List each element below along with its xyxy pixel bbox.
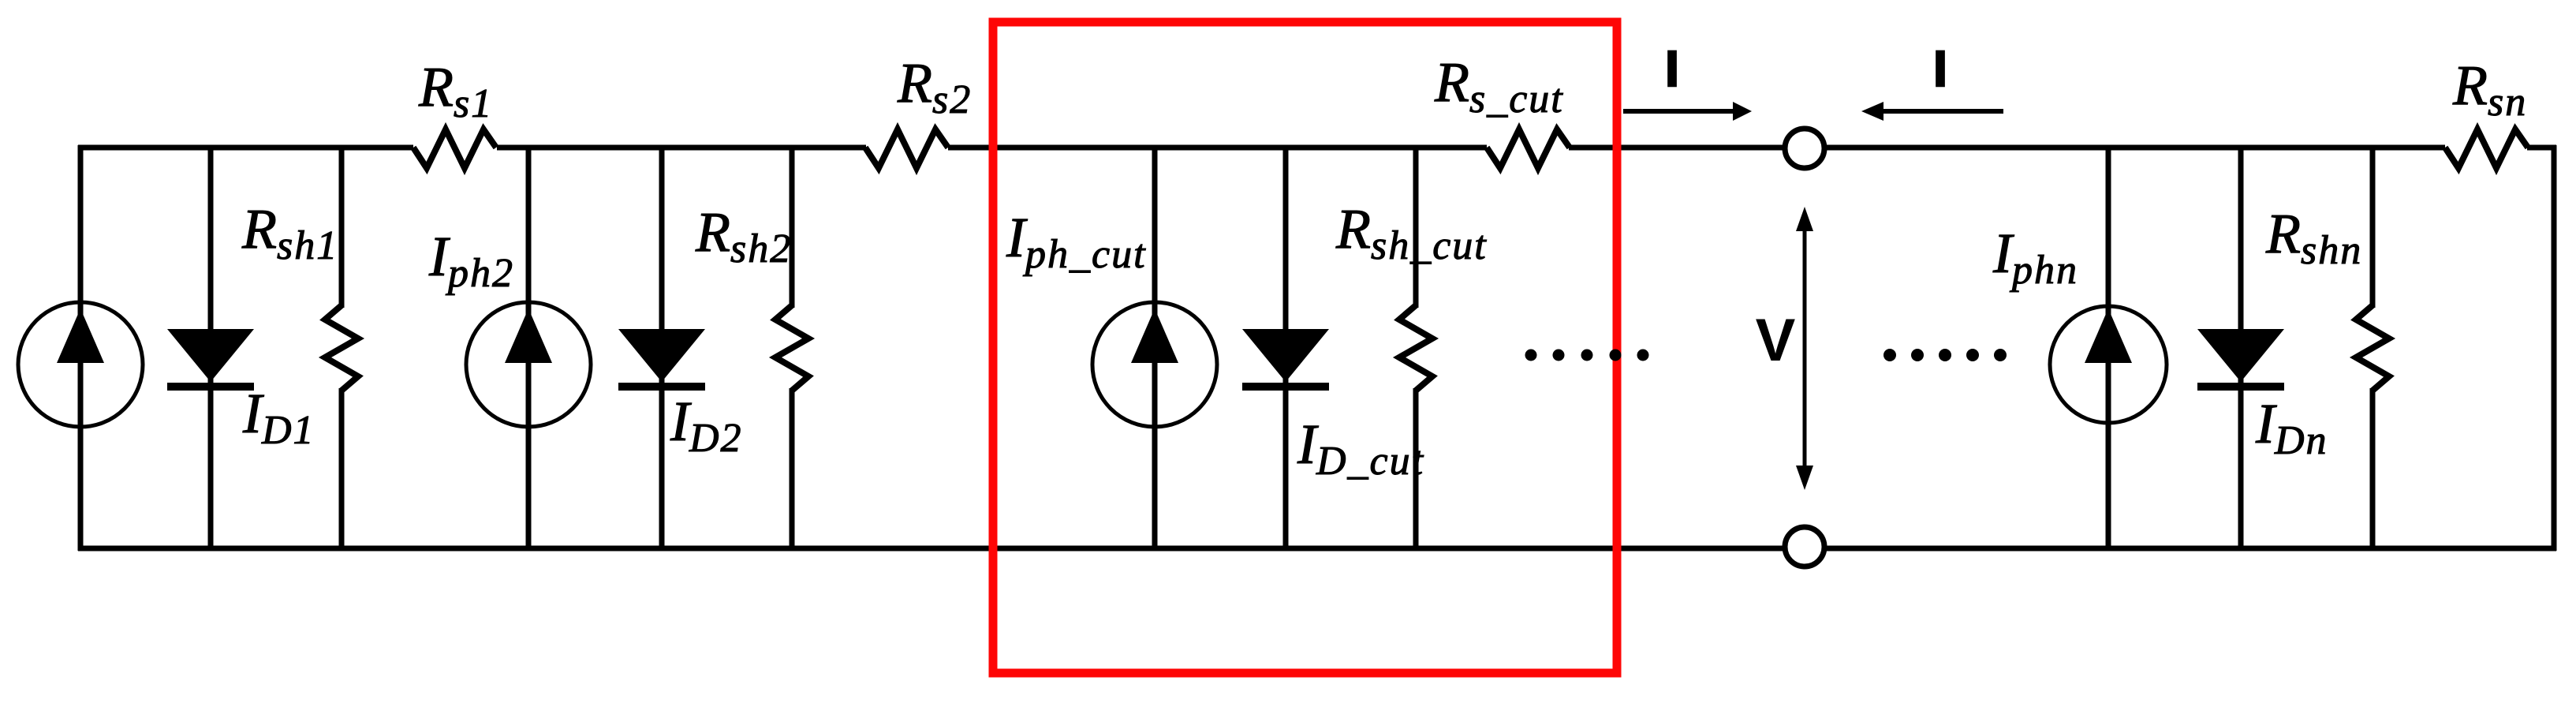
- wire diode branch 1: [208, 148, 214, 548]
- wire top rail segment 4: [1569, 145, 1785, 151]
- current source Iph2: [466, 302, 591, 427]
- wire left edge: [78, 145, 84, 551]
- wire source branch 2: [526, 148, 532, 548]
- resistor Rs1: [413, 129, 496, 168]
- ellipsis dots left group: [1525, 350, 1649, 361]
- wire bottom rail left: [78, 546, 1785, 552]
- diode D2: [618, 329, 705, 382]
- wire top rail segment 2: [497, 145, 866, 151]
- wire shunt branch cut lower: [1413, 388, 1419, 548]
- wire shunt branch 2 upper: [790, 148, 795, 308]
- wire top rail segment 6: [2527, 145, 2556, 151]
- wire shunt branch cut upper: [1413, 148, 1419, 308]
- node terminal bottom: [1785, 527, 1824, 567]
- wire shunt branch 1 lower: [339, 388, 345, 548]
- diode D1: [167, 329, 254, 382]
- red highlight box: [993, 22, 1617, 673]
- resistor Rshn: [2356, 305, 2389, 391]
- resistor Rs2: [865, 129, 948, 168]
- resistor Rs_cut: [1487, 129, 1570, 168]
- diode Dn: [2197, 329, 2284, 382]
- svg-text:I: I: [1665, 40, 1679, 97]
- voltage arrow V double-headed: [1796, 207, 1813, 490]
- current source Iph_cut: [1092, 302, 1217, 427]
- wire top rail segment 1: [78, 145, 413, 151]
- wire diode branch cut: [1283, 148, 1289, 548]
- ellipsis dots right group: [1883, 349, 2007, 361]
- current arrow I right-pointing: [1623, 102, 1752, 121]
- wire diode branch n: [2238, 148, 2244, 548]
- svg-text:I: I: [1933, 40, 1947, 97]
- node terminal top: [1785, 129, 1824, 168]
- resistor Rsh_cut: [1399, 305, 1432, 391]
- wire top rail segment 5: [1824, 145, 2445, 151]
- wire top rail segment 3: [948, 145, 1487, 151]
- resistor Rsh1: [325, 305, 358, 391]
- wire source branch n: [2106, 148, 2111, 548]
- wire bottom rail right: [1824, 546, 2556, 552]
- current source Iph1: [18, 302, 143, 427]
- wire right edge: [2552, 145, 2557, 551]
- svg-text:V: V: [1756, 307, 1796, 374]
- resistor Rsn: [2445, 129, 2528, 168]
- resistor Rsh2: [775, 305, 808, 391]
- diode D_cut: [1242, 329, 1329, 382]
- wire shunt branch n lower: [2370, 388, 2376, 548]
- wire shunt branch 1 upper: [339, 148, 345, 308]
- wire shunt branch n upper: [2370, 148, 2376, 308]
- wire shunt branch 2 lower: [790, 388, 795, 548]
- wire diode branch 2: [659, 148, 665, 548]
- current arrow I left-pointing: [1861, 102, 2003, 121]
- current source Iphn: [2050, 306, 2167, 423]
- wire source branch cut: [1152, 148, 1158, 548]
